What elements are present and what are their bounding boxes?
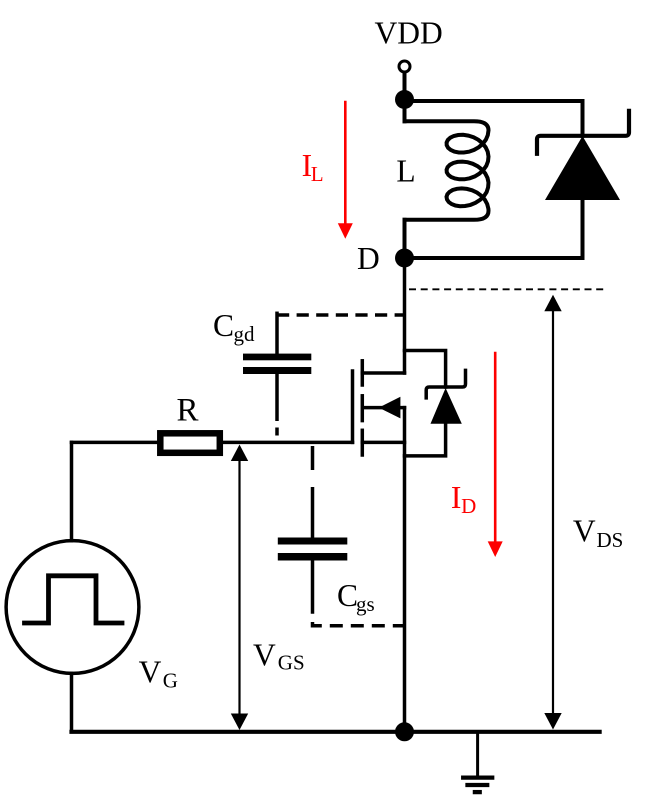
junction dot source node xyxy=(395,722,414,741)
source VG circle xyxy=(6,541,139,674)
current arrow ID xyxy=(494,353,497,544)
junction dot top node xyxy=(395,90,414,109)
diode D1 anode triangle xyxy=(545,136,620,200)
svg-text:V: V xyxy=(253,638,276,673)
svg-text:gd: gd xyxy=(234,322,256,346)
wire D rail xyxy=(405,256,583,260)
capacitor Cgd bottom plate xyxy=(243,367,311,374)
capacitor Cgs dashed top lead xyxy=(311,446,315,538)
wire diode anode to D rail xyxy=(581,200,585,258)
source VG pulse symbol xyxy=(25,576,123,623)
mosfet Q1 source terminal xyxy=(362,441,404,445)
wire source vertical xyxy=(403,408,407,732)
wire VG top xyxy=(70,442,74,540)
svg-text:C: C xyxy=(337,578,358,613)
svg-text:GS: GS xyxy=(278,651,305,675)
mosfet Q1 body arrow xyxy=(363,406,405,410)
mosfet Q1 drain terminal xyxy=(362,371,404,375)
capacitor Cgd dashed bottom lead xyxy=(275,374,279,442)
wire bottom rail xyxy=(72,730,600,734)
current arrow IL xyxy=(344,102,347,226)
wire VDD terminal to top node xyxy=(403,73,407,100)
mosfet Q1 channel segment body xyxy=(361,396,365,421)
wire top node to inductor xyxy=(403,100,407,122)
inductor L coil xyxy=(405,121,489,220)
wire inductor to D node xyxy=(403,220,407,258)
body diode cathode bar (schottky) xyxy=(426,370,465,398)
capacitor Cgd top lead xyxy=(275,313,279,353)
capacitor Cgs dashed link to source xyxy=(313,622,405,626)
voltage arrow VGS xyxy=(238,456,240,719)
capacitor Cgs top plate xyxy=(278,538,348,545)
svg-text:R: R xyxy=(177,393,199,429)
svg-text:L: L xyxy=(396,154,415,189)
svg-text:gs: gs xyxy=(356,592,375,616)
diode D1 cathode bar (schottky) xyxy=(537,111,629,154)
mosfet Q1 gate bar xyxy=(351,371,355,442)
body diode anode triangle xyxy=(431,388,462,424)
voltage arrow VDS xyxy=(552,306,554,717)
capacitor Cgd top plate xyxy=(243,354,311,361)
resistor R body xyxy=(160,433,220,453)
svg-text:VDD: VDD xyxy=(375,15,443,50)
wire top rail to diode cathode xyxy=(581,101,585,136)
wire resistor to gate xyxy=(223,441,353,445)
VDD terminal (open circle) xyxy=(399,61,410,72)
svg-text:I: I xyxy=(451,480,462,515)
svg-text:C: C xyxy=(213,308,234,343)
ground bar 3 xyxy=(475,790,480,794)
wire drain vertical xyxy=(403,258,407,373)
svg-text:V: V xyxy=(139,655,162,690)
svg-text:L: L xyxy=(311,162,324,186)
wire VG bottom xyxy=(70,673,74,731)
wire body diode anode to source xyxy=(405,424,446,456)
capacitor Cgs bottom plate xyxy=(278,553,348,561)
svg-text:D: D xyxy=(357,241,380,276)
wire VG to resistor xyxy=(72,441,158,445)
mosfet Q1 channel segment drain xyxy=(361,361,365,385)
svg-text:G: G xyxy=(163,668,178,692)
svg-text:DS: DS xyxy=(597,528,624,552)
svg-text:D: D xyxy=(461,494,476,518)
junction dot node D xyxy=(395,249,414,268)
ground bar 2 xyxy=(468,783,488,787)
capacitor Cgd dashed link to drain xyxy=(277,313,405,317)
mosfet Q1 channel segment source xyxy=(361,430,365,455)
ground bar 1 xyxy=(463,775,492,779)
capacitor Cgs bottom lead xyxy=(311,561,315,613)
svg-text:V: V xyxy=(573,514,596,549)
wire top rail xyxy=(405,99,583,103)
ground stem xyxy=(476,732,479,776)
wire drain to body diode xyxy=(405,351,446,388)
dashed VDS reference line xyxy=(409,288,606,290)
